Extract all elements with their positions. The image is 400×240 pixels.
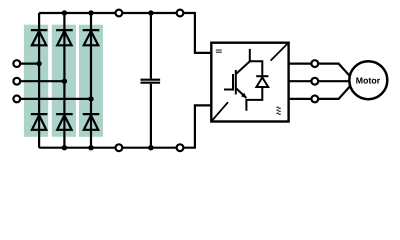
IGBT collector diagonal <box>237 62 250 74</box>
junction phase L3 leg3 <box>88 96 93 101</box>
junction top rail leg3 <box>88 10 93 15</box>
IGBT collector lead <box>250 49 262 75</box>
AC symbol in inverter <box>277 107 281 114</box>
wire rectifier leg 1 <box>38 13 40 148</box>
terminal input L3 <box>13 96 20 103</box>
terminal output U <box>311 60 318 67</box>
terminal output V <box>311 78 318 85</box>
junction phase L2 leg2 <box>62 79 67 84</box>
rectifier highlight band 3 <box>79 25 103 137</box>
wire AC input phase L1 <box>18 62 39 64</box>
motor label <box>356 77 380 83</box>
inverter diagonal bottom-left <box>212 102 228 121</box>
junction bottom rail leg3 <box>88 145 93 150</box>
IGBT emitter diagonal <box>236 88 247 98</box>
IGBT Q1 <box>224 49 262 111</box>
junction phase L1 leg1 <box>36 61 41 66</box>
junction top rail leg2 <box>62 10 67 15</box>
capacitor C1 plates <box>141 80 161 83</box>
IGBT body bar <box>235 70 237 94</box>
wire DC+ top rail <box>39 13 211 53</box>
diode D4 (bottom leg2) <box>56 114 73 130</box>
wire inverter output V <box>289 80 350 82</box>
IGBT emitter lead <box>246 87 262 111</box>
wire AC input phase L3 <box>18 98 91 100</box>
IGBT gate bar <box>232 74 234 91</box>
diode D6 (bottom leg3) <box>83 114 100 130</box>
terminal DC+ inverter side <box>177 10 184 17</box>
freewheel diode D7 <box>256 76 268 87</box>
wire inverter output U <box>289 64 351 77</box>
DC symbol in inverter <box>216 49 222 52</box>
junction bottom rail leg2 <box>62 145 67 150</box>
rectifier highlight band 1 <box>24 25 48 137</box>
wire inverter output W <box>289 86 351 99</box>
rectifier highlight band 2 <box>52 25 76 137</box>
diode D2 (bottom leg1) <box>31 114 48 130</box>
wire AC input phase L2 <box>18 80 64 82</box>
wire rectifier leg 3 <box>90 13 92 148</box>
junction top rail capacitor tap <box>148 10 153 15</box>
IGBT emitter arrow <box>241 93 247 98</box>
terminal DC- inverter side <box>177 144 184 151</box>
terminal input L1 <box>13 60 20 67</box>
terminal DC- rectifier side <box>116 144 123 151</box>
wire rectifier leg 2 <box>63 13 65 148</box>
motor M <box>349 61 387 99</box>
inverter diagonal top-right <box>271 43 288 60</box>
terminal input L2 <box>13 78 20 85</box>
wire capacitor top lead <box>150 13 152 79</box>
inverter block U1 <box>211 43 288 122</box>
diode D1 (top leg1) <box>31 30 48 45</box>
terminal DC+ rectifier side <box>116 10 123 17</box>
wire DC- bottom rail <box>39 105 211 147</box>
diode D5 (top leg3) <box>83 30 100 45</box>
junction bottom rail capacitor tap <box>148 145 153 150</box>
wire capacitor bottom lead <box>150 84 152 148</box>
terminal output W <box>311 96 318 103</box>
diode D3 (top leg2) <box>56 30 73 45</box>
IGBT gate lead <box>224 89 233 91</box>
